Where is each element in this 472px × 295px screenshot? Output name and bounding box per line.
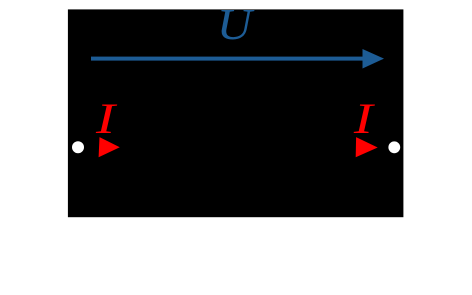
svg-text:I: I	[95, 94, 117, 142]
terminal node (left)	[72, 141, 84, 153]
current arrow I (right): head	[356, 137, 378, 157]
voltage arrow U: head	[363, 49, 385, 69]
component box (one-port two-terminal element, dark image area)	[68, 9, 404, 217]
voltage arrow U: shaft	[91, 57, 363, 61]
svg-text:U: U	[217, 1, 255, 50]
terminal node (right)	[388, 141, 400, 153]
svg-text:I: I	[353, 94, 375, 142]
current arrow I (left): head	[99, 137, 120, 157]
